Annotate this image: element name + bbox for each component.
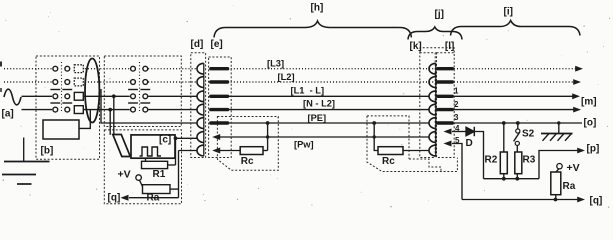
svg-text:[L3]: [L3] <box>267 59 284 69</box>
svg-text:R2: R2 <box>485 155 498 166</box>
svg-text:+V: +V <box>567 162 580 174</box>
svg-text:+V: +V <box>118 169 131 181</box>
svg-text:[h]: [h] <box>311 3 324 14</box>
svg-text:D: D <box>466 138 473 149</box>
svg-text:1: 1 <box>454 87 459 96</box>
svg-text:R3: R3 <box>523 155 536 166</box>
svg-text:2: 2 <box>454 100 459 109</box>
svg-text:[L1 - L]: [L1 - L] <box>291 86 325 96</box>
svg-text:Rc: Rc <box>241 156 254 167</box>
svg-text:4: 4 <box>455 124 460 133</box>
svg-text:[L2]: [L2] <box>278 72 295 82</box>
svg-text:3: 3 <box>454 113 459 122</box>
svg-text:[N - L2]: [N - L2] <box>303 99 335 109</box>
svg-text:Rc: Rc <box>382 156 395 167</box>
svg-text:[PE]: [PE] <box>308 113 327 123</box>
svg-text:[c]: [c] <box>159 135 171 146</box>
svg-text:[m]: [m] <box>581 97 597 108</box>
svg-text:[d]: [d] <box>191 39 204 50</box>
svg-text:[a]: [a] <box>2 109 14 120</box>
svg-text:[k]: [k] <box>410 41 422 52</box>
svg-text:[j]: [j] <box>435 9 444 20</box>
svg-text:[q]: [q] <box>590 196 603 207</box>
svg-text:[e]: [e] <box>211 39 223 50</box>
svg-text:[b]: [b] <box>41 146 54 157</box>
svg-text:[p]: [p] <box>587 144 600 155</box>
svg-text:[Pw]: [Pw] <box>294 140 314 150</box>
svg-text:R1: R1 <box>153 169 166 180</box>
svg-text:Ra: Ra <box>563 181 576 192</box>
svg-text:5: 5 <box>455 136 460 145</box>
svg-text:[i]: [i] <box>504 7 513 18</box>
svg-text:[o]: [o] <box>584 118 597 129</box>
svg-text:[q]: [q] <box>108 193 121 204</box>
svg-text:Ra: Ra <box>147 193 160 204</box>
svg-text:S2: S2 <box>522 129 535 140</box>
svg-text:[l]: [l] <box>445 41 454 52</box>
